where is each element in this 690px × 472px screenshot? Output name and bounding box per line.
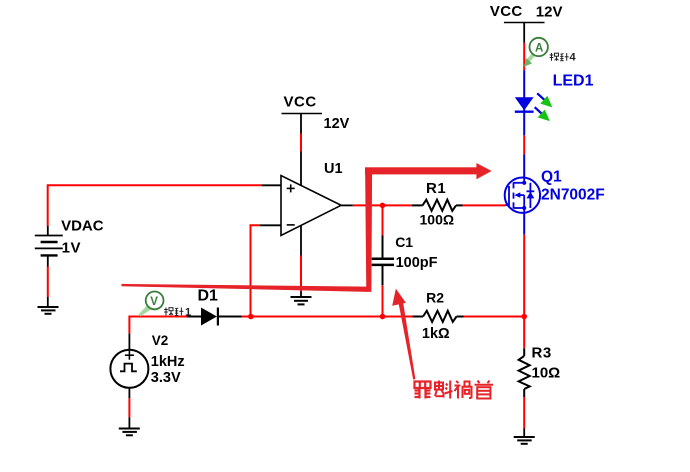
svg-text:C1: C1 <box>395 234 413 250</box>
LED LED1 <box>515 73 594 114</box>
svg-text:10Ω: 10Ω <box>532 365 561 382</box>
wire <box>242 316 413 318</box>
LED emission arrow 2 <box>535 107 554 125</box>
wire <box>523 135 525 154</box>
svg-text:VDAC: VDAC <box>61 217 104 234</box>
wire <box>523 114 525 136</box>
svg-text:R2: R2 <box>426 289 444 305</box>
annotation arrow (big, to Q1 gate) <box>122 163 492 292</box>
resistor R2 <box>413 289 464 342</box>
svg-text:D1: D1 <box>198 288 219 305</box>
node R2-R3 junction <box>521 314 527 320</box>
svg-text:1V: 1V <box>62 240 82 257</box>
diode D1 <box>187 288 242 326</box>
ground (battery) <box>38 297 59 314</box>
svg-text:2N7002F: 2N7002F <box>541 186 605 203</box>
svg-text:1: 1 <box>185 306 191 318</box>
svg-text:1kHz: 1kHz <box>151 354 185 370</box>
probe 探针1 (voltage) <box>139 292 164 317</box>
wire <box>523 70 525 96</box>
wire <box>382 285 384 316</box>
svg-text:100pF: 100pF <box>396 255 438 271</box>
node C1-R2 junction <box>380 314 386 320</box>
svg-text:1kΩ: 1kΩ <box>422 326 450 342</box>
svg-text:R3: R3 <box>532 345 552 362</box>
wire <box>523 43 525 70</box>
ground (V2) <box>119 417 140 435</box>
power VCC (top right) <box>490 3 563 43</box>
source V2 <box>110 333 184 398</box>
node D1-feedback junction <box>248 314 254 320</box>
wire <box>523 234 525 348</box>
wire <box>128 398 130 417</box>
wire <box>382 205 384 235</box>
wire <box>523 397 525 429</box>
power VCC (op-amp) <box>282 94 350 134</box>
label 探针4 <box>550 53 569 61</box>
transistor Q1 2N7002F <box>505 169 605 213</box>
svg-text:4: 4 <box>570 52 577 64</box>
resistor R3 <box>519 345 561 397</box>
wire <box>300 134 302 152</box>
wire <box>353 204 412 206</box>
op-amp U1 <box>260 152 353 256</box>
svg-text:100Ω: 100Ω <box>420 211 455 227</box>
probe 探针4 (current) <box>521 38 548 70</box>
wire <box>300 256 302 292</box>
wire <box>523 155 525 179</box>
label 探针1 <box>164 308 183 316</box>
annotation text 罪魁祸首 <box>415 382 431 399</box>
svg-text:U1: U1 <box>324 161 343 177</box>
svg-text:A: A <box>535 43 543 55</box>
wire <box>47 267 49 298</box>
wire <box>464 316 525 318</box>
svg-text:12V: 12V <box>536 4 563 21</box>
svg-text:3.3V: 3.3V <box>151 370 181 386</box>
svg-text:VCC: VCC <box>284 94 317 111</box>
svg-text:VCC: VCC <box>490 3 523 20</box>
svg-text:Q1: Q1 <box>541 169 562 186</box>
battery VDAC <box>35 217 104 266</box>
ground (R3) <box>514 429 535 444</box>
svg-text:V2: V2 <box>152 333 169 348</box>
resistor R1 <box>412 180 463 227</box>
node output junction <box>380 203 386 209</box>
wire <box>523 213 525 235</box>
wire <box>129 317 187 334</box>
svg-text:V: V <box>150 296 158 308</box>
capacitor C1 <box>372 234 438 285</box>
wire <box>251 225 261 316</box>
ground (op-amp) <box>291 292 312 305</box>
svg-text:LED1: LED1 <box>553 73 594 90</box>
wire <box>463 204 506 206</box>
wire <box>48 185 262 226</box>
svg-text:12V: 12V <box>324 116 350 132</box>
annotation arrow (small, to C1) <box>392 289 415 380</box>
svg-text:R1: R1 <box>426 180 446 197</box>
LED emission arrow 1 <box>537 93 556 111</box>
